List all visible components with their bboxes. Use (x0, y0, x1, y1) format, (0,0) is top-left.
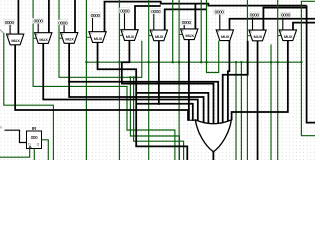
junction select run x=119.4 (118, 61, 120, 63)
multiplexer MUX10 (279, 30, 296, 41)
register Q output wire (42, 140, 49, 160)
multiplexer MUX3 (61, 33, 78, 44)
junction select run x=86.4 (85, 61, 87, 63)
multiplexer MUX6 (150, 30, 167, 41)
svg-text:MUX: MUX (126, 35, 135, 39)
constant 0000 feeding MUX7 (183, 24, 185, 29)
junction MUX3 output branch (68, 81, 70, 83)
register clock wire (0, 149, 30, 158)
MUX8 select wire (down-right-up route) (207, 0, 219, 73)
bus wire to MUX10 data input (elbow) (293, 23, 315, 30)
junction bus x=158.85 y=103.8 (158, 103, 160, 105)
or-gate output wire (212, 152, 214, 160)
bus wire to MUX2 data input (48, 0, 50, 33)
svg-text:0000: 0000 (151, 9, 161, 14)
constant 0000 feeding MUX5 (124, 13, 126, 30)
constant 0000 feeding MUX8 (219, 14, 221, 30)
multiplexer MUX5 (121, 30, 138, 41)
junction select run x=241.4 (240, 61, 242, 63)
register bottom pin wire (33, 149, 35, 161)
MUX7 select wire (178, 0, 180, 160)
green drop wire at x=241.4 (240, 62, 242, 160)
svg-text:0000: 0000 (120, 8, 130, 13)
register IR (27, 131, 42, 149)
junction T-drop 2 (129, 76, 131, 78)
MUX6 select stub (149, 35, 152, 37)
multiplexer MUX2 (35, 33, 52, 44)
multiplexer MUX7 (181, 29, 198, 40)
green T-drop to corner 3 (134, 77, 184, 160)
bus wire y=103.8 from x=136.2 column to OR input (136, 104, 193, 121)
constant 0000 feeding MUX4 (92, 17, 94, 31)
svg-text:ir: ir (0, 126, 3, 130)
junction select run x=172.7 (172, 61, 174, 63)
svg-text:IR: IR (32, 126, 37, 131)
svg-text:0000: 0000 (215, 10, 225, 15)
green drop wire at x=271 (270, 44, 272, 160)
junction select run x=179.1 (178, 61, 180, 63)
junction select run x=277.7 (277, 61, 279, 63)
wire from ir label to register D input (5, 130, 27, 142)
MUX2 select wire (33, 0, 175, 160)
MUX4 select stub (86, 36, 90, 38)
svg-text:0000: 0000 (182, 20, 192, 25)
bus wire to MUX6 data input (elbow) (165, 9, 207, 30)
constant 0000 feeding MUX3 (63, 25, 65, 33)
MUX6 output bus vertical (158, 41, 160, 104)
or-gate (multi-input, facing south) (195, 120, 231, 152)
junction select run x=271 (270, 61, 272, 63)
MUX1 output bus to OR input 1 (15, 45, 188, 121)
bus wire to MUX5 data input (elbow) (135, 6, 161, 30)
bus wire to MUX3 data input (74, 0, 76, 33)
MUX5 select wire (118, 0, 120, 160)
svg-text:000: 000 (31, 135, 38, 140)
svg-text:MUX: MUX (65, 38, 74, 42)
junction select run x=301.4 (300, 61, 302, 63)
MUX10 output bus to OR rightmost input 10 (232, 41, 288, 121)
junction select run x=201.2 (200, 61, 202, 63)
svg-text:MUX: MUX (94, 37, 103, 41)
MUX2 output bus to OR input (43, 43, 198, 121)
junction T-drop 3 (132, 76, 134, 78)
junction select run x=148.7 (148, 61, 150, 63)
MUX3 output branch to OR input (69, 82, 218, 125)
MUX9 select wire (246, 0, 248, 160)
green vertical ending on select run (200, 0, 202, 62)
green T-drop to corner 2 (130, 77, 179, 160)
bus wire to MUX4 data input (elbow from top bus) (105, 2, 307, 32)
black elbow from MUX9 area to OR input (223, 41, 248, 123)
bus wire to MUX7 data input (elbow) (194, 4, 196, 29)
svg-text:MUX: MUX (155, 35, 164, 39)
MUX3 select wire (with riser) (59, 0, 142, 77)
MUX1 select wire stub from left edge (0, 30, 4, 33)
MUX10 select wire (277, 0, 279, 160)
multiplexer MUX8 (216, 30, 233, 41)
MUX3 select stub (59, 37, 62, 39)
svg-text:MUX: MUX (284, 35, 293, 39)
constant 0000 feeding MUX9 (252, 17, 254, 30)
MUX7 output bus straight to OR input 1 (188, 40, 190, 121)
MUX10 select stub (278, 35, 281, 37)
svg-text:0000: 0000 (281, 13, 291, 18)
black bus corner from x=136.2 column to bottom (136, 93, 187, 160)
multiplexer MUX1 (7, 34, 24, 45)
constant 0000 feeding MUX1 (9, 24, 11, 34)
MUX1 select wire (4, 33, 54, 160)
multiplexer MUX9 (249, 30, 266, 41)
constant 0000 feeding MUX2 (37, 23, 39, 33)
MUX4 output bus zigzag to OR input (98, 42, 209, 124)
MUX9 select stub (247, 35, 250, 37)
MUX3 output bus to OR input (69, 43, 203, 123)
multiplexer MUX4 (89, 32, 106, 43)
bus wire to MUX8 data input (elbow) (230, 19, 316, 30)
svg-text:0000: 0000 (58, 20, 68, 25)
MUX2 select stub (33, 37, 36, 39)
green drop wire at x=236 (235, 62, 237, 160)
svg-text:0000: 0000 (91, 13, 101, 18)
svg-text:Q: Q (37, 143, 40, 147)
MUX4 select wire (main select run) (85, 0, 87, 160)
svg-text:MUX: MUX (39, 38, 48, 42)
svg-text:0000: 0000 (5, 20, 15, 25)
svg-text:MUX: MUX (185, 34, 194, 38)
MUX6 select wire (148, 0, 150, 160)
or-gate left wing line (188, 119, 196, 121)
MUX9 output bus straight down (257, 41, 259, 160)
green vertical between MUX6 and MUX7 ending on select run (172, 0, 174, 62)
bus wire to MUX9 data input (elbow) (263, 8, 306, 31)
constant 0000 feeding MUX10 (282, 17, 284, 30)
svg-text:MUX: MUX (221, 35, 230, 39)
bus wire to MUX1 data input (17, 0, 19, 34)
svg-text:MUX: MUX (254, 35, 263, 39)
MUX8 output bus to OR input (228, 41, 230, 122)
junction select run x=236 (235, 61, 237, 63)
bus vertical at right edge from top bus (307, 6, 315, 123)
MUX5 output bus to OR input (with jog) (122, 40, 214, 125)
svg-text:0000: 0000 (250, 13, 260, 18)
MUX5 select stub (119, 34, 122, 36)
junction select run x=247.4 (246, 61, 248, 63)
svg-text:0000: 0000 (34, 19, 44, 24)
select run horizontal (86, 61, 301, 63)
MUX7 select stub (179, 34, 182, 36)
junction select run x=206.5 (205, 61, 207, 63)
svg-text:MUX: MUX (11, 39, 20, 43)
green vertical at x=301.4 with top and bottom elbows (301, 1, 315, 135)
constant 0000 feeding MUX6 (153, 13, 155, 30)
